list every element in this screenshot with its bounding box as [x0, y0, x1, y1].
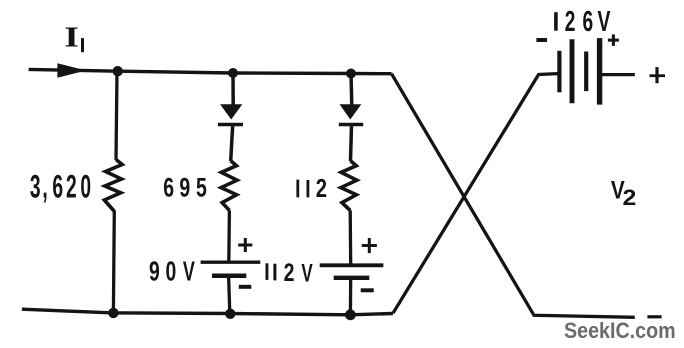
- svg-text:V: V: [183, 255, 195, 286]
- svg-text:3: 3: [30, 168, 41, 204]
- label + of battery B3: [608, 34, 619, 46]
- wire battery B2 to bottom rail: [349, 278, 353, 315]
- svg-text:2: 2: [565, 6, 576, 38]
- label 112V: [266, 259, 314, 287]
- wire battery B3 to + terminal: [602, 73, 635, 76]
- svg-text:6: 6: [163, 172, 174, 202]
- wire battery B1 to bottom rail: [229, 276, 230, 313]
- node C junction dot top-right: [346, 69, 356, 79]
- diode D1: [218, 104, 243, 124]
- wire branch 1 lower: [112, 211, 116, 313]
- label 3,620: [30, 168, 91, 204]
- label + of battery B2: [362, 238, 377, 253]
- wire diode D1 to resistor: [231, 125, 233, 161]
- wire top rail: [29, 69, 392, 73]
- wire branch 3 upper: [349, 74, 353, 106]
- label - of battery B1: [239, 285, 252, 289]
- svg-text:6: 6: [52, 168, 63, 204]
- svg-text:V: V: [598, 6, 612, 38]
- current arrow I1: [57, 63, 86, 77]
- label 112: [296, 173, 327, 202]
- diode D2: [339, 104, 363, 124]
- terminal + output: [650, 67, 666, 83]
- label 126V: [554, 6, 611, 38]
- svg-text:,: ,: [42, 168, 47, 204]
- resistor R3 112: [341, 161, 357, 211]
- label - of battery B3: [536, 38, 547, 42]
- battery B3 126V: [559, 38, 599, 105]
- node D junction dot bottom-left: [108, 308, 118, 318]
- wire crossover ascending: [393, 74, 558, 314]
- svg-text:5: 5: [196, 172, 207, 202]
- svg-text:9: 9: [179, 172, 190, 202]
- resistor R2 695: [221, 161, 237, 211]
- battery B1 90V: [201, 262, 261, 276]
- svg-text:0: 0: [166, 256, 177, 287]
- wire branch 2 upper: [231, 73, 235, 105]
- svg-text:2: 2: [284, 259, 295, 287]
- wire bottom rail: [22, 309, 393, 315]
- svg-text:V: V: [301, 259, 313, 287]
- wire branch 1 upper: [116, 72, 117, 161]
- svg-text:I: I: [64, 21, 79, 53]
- wire resistor 112 to battery: [349, 210, 353, 265]
- label + of battery B1: [238, 238, 252, 252]
- wire crossover descending: [392, 74, 635, 318]
- svg-text:2: 2: [66, 168, 77, 204]
- battery B2 112V: [320, 265, 384, 278]
- label 695: [163, 172, 207, 202]
- label - of battery B2: [361, 288, 374, 292]
- node F junction dot bottom-right: [345, 309, 356, 320]
- svg-text:9: 9: [149, 256, 160, 287]
- wire diode D2 to resistor: [351, 125, 352, 161]
- svg-text:0: 0: [80, 168, 91, 204]
- label 90V: [149, 255, 195, 287]
- node E junction dot bottom-middle: [225, 309, 235, 319]
- svg-text:2: 2: [623, 185, 637, 209]
- terminal - output: [647, 315, 661, 318]
- svg-text:SeekIC.com: SeekIC.com: [564, 318, 676, 343]
- node A junction dot top-left: [113, 66, 123, 76]
- svg-text:2: 2: [316, 173, 327, 202]
- label V2: [611, 176, 636, 210]
- node B junction dot top-middle: [228, 68, 238, 78]
- resistor R1 3,620: [104, 160, 122, 212]
- svg-text:6: 6: [582, 6, 593, 38]
- label I1: [64, 21, 84, 53]
- wire resistor 695 to battery: [227, 210, 231, 262]
